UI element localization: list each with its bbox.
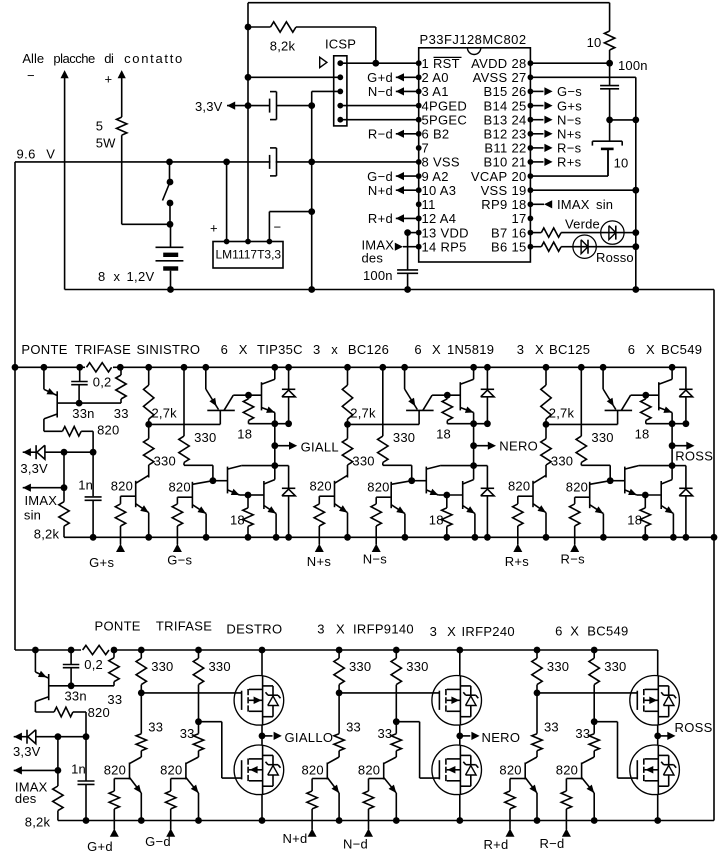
svg-text:6 B2: 6 B2 <box>422 127 450 142</box>
svg-text:1n: 1n <box>78 478 93 493</box>
svg-text:8,2k: 8,2k <box>270 39 296 54</box>
svg-text:10 A3: 10 A3 <box>422 183 457 198</box>
svg-text:5PGEC: 5PGEC <box>422 113 468 128</box>
svg-text:VSS: VSS <box>481 183 508 198</box>
svg-text:+: + <box>105 72 113 87</box>
svg-text:B12: B12 <box>483 127 507 142</box>
svg-text:X: X <box>570 624 579 639</box>
svg-text:TRIFASE: TRIFASE <box>75 342 131 357</box>
svg-text:+: + <box>210 221 218 236</box>
svg-text:26: 26 <box>511 84 526 99</box>
svg-text:AVDD: AVDD <box>471 56 507 71</box>
svg-text:820: 820 <box>88 705 110 720</box>
svg-text:15: 15 <box>511 240 526 255</box>
svg-text:12 A4: 12 A4 <box>422 211 457 226</box>
svg-text:3,3V: 3,3V <box>20 461 48 476</box>
svg-text:6: 6 <box>555 624 563 639</box>
svg-text:X: X <box>447 624 456 639</box>
svg-text:PONTE: PONTE <box>21 342 67 357</box>
svg-text:820: 820 <box>508 478 530 493</box>
svg-text:19: 19 <box>511 183 526 198</box>
svg-text:R+s: R+s <box>505 554 530 569</box>
svg-text:10: 10 <box>614 156 629 171</box>
svg-text:TRIFASE: TRIFASE <box>156 619 212 634</box>
svg-text:8: 8 <box>98 269 105 284</box>
svg-text:6: 6 <box>414 342 422 357</box>
svg-text:2 A0: 2 A0 <box>422 70 449 85</box>
svg-text:18: 18 <box>237 426 252 441</box>
svg-text:330: 330 <box>209 659 231 674</box>
svg-text:X: X <box>646 342 655 357</box>
svg-text:5W: 5W <box>96 136 116 151</box>
svg-text:ICSP: ICSP <box>325 37 356 52</box>
svg-text:R+d: R+d <box>368 211 393 226</box>
svg-text:Verde: Verde <box>565 217 600 232</box>
svg-text:3,3V: 3,3V <box>195 99 223 114</box>
svg-text:33: 33 <box>346 719 361 734</box>
svg-text:B11: B11 <box>484 141 507 156</box>
svg-text:33: 33 <box>180 726 195 741</box>
svg-text:18: 18 <box>230 512 245 527</box>
svg-text:330: 330 <box>591 430 613 445</box>
svg-text:820: 820 <box>104 763 126 778</box>
svg-text:100n: 100n <box>618 58 648 73</box>
svg-text:X: X <box>336 622 345 637</box>
svg-text:3,3V: 3,3V <box>13 744 41 759</box>
svg-text:5: 5 <box>96 119 103 134</box>
svg-text:820: 820 <box>310 478 332 493</box>
svg-text:9.6: 9.6 <box>17 146 36 161</box>
svg-text:IRFP240: IRFP240 <box>462 624 515 639</box>
svg-text:B7: B7 <box>491 225 508 240</box>
svg-text:G+s: G+s <box>557 98 582 113</box>
svg-text:27: 27 <box>511 70 526 85</box>
svg-text:NERO: NERO <box>482 730 521 745</box>
svg-text:33: 33 <box>575 726 590 741</box>
svg-text:GIALLO: GIALLO <box>285 730 334 745</box>
svg-text:R−s: R−s <box>557 141 582 156</box>
svg-text:R−s: R−s <box>561 552 586 567</box>
svg-text:1 RST: 1 RST <box>422 56 460 71</box>
svg-text:B10: B10 <box>483 155 507 170</box>
svg-text:di: di <box>104 51 114 66</box>
svg-text:N+d: N+d <box>368 183 393 198</box>
svg-text:820: 820 <box>556 763 578 778</box>
svg-text:G+s: G+s <box>89 555 114 570</box>
svg-text:33: 33 <box>544 719 559 734</box>
svg-text:1N5819: 1N5819 <box>447 342 494 357</box>
svg-text:P33FJ128MC802: P33FJ128MC802 <box>420 32 527 47</box>
svg-text:17: 17 <box>511 211 526 226</box>
svg-text:820: 820 <box>499 763 521 778</box>
svg-text:IRFP9140: IRFP9140 <box>353 622 414 637</box>
svg-text:x: x <box>331 342 338 357</box>
svg-text:AVSS: AVSS <box>473 70 508 85</box>
svg-text:X: X <box>432 342 441 357</box>
svg-text:820: 820 <box>97 423 119 438</box>
svg-text:x: x <box>114 269 121 284</box>
svg-text:R−d: R−d <box>539 836 564 851</box>
svg-text:des: des <box>362 250 384 265</box>
svg-text:ROSS: ROSS <box>675 720 713 735</box>
svg-text:2,7k: 2,7k <box>152 405 178 420</box>
svg-text:820: 820 <box>358 763 380 778</box>
svg-text:des: des <box>15 791 37 806</box>
svg-text:20: 20 <box>511 169 526 184</box>
svg-text:DESTRO: DESTRO <box>226 622 282 637</box>
svg-text:7: 7 <box>422 141 430 156</box>
svg-text:TIP35C: TIP35C <box>257 342 303 357</box>
svg-text:3: 3 <box>430 624 438 639</box>
svg-text:0,2: 0,2 <box>93 375 112 390</box>
svg-text:G+d: G+d <box>87 839 113 854</box>
svg-text:B6: B6 <box>491 240 508 255</box>
svg-text:18: 18 <box>627 512 642 527</box>
svg-text:3: 3 <box>317 622 325 637</box>
svg-text:contatto: contatto <box>124 51 184 66</box>
svg-text:820: 820 <box>566 479 588 494</box>
svg-text:R−d: R−d <box>368 127 393 142</box>
svg-text:3 A1: 3 A1 <box>422 84 449 99</box>
svg-text:−: − <box>274 220 282 235</box>
svg-text:33: 33 <box>114 406 129 421</box>
svg-text:820: 820 <box>160 763 182 778</box>
svg-text:IMAX: IMAX <box>25 493 58 508</box>
svg-text:NERO: NERO <box>499 439 538 454</box>
svg-text:R+d: R+d <box>483 837 508 852</box>
svg-text:SINISTRO: SINISTRO <box>137 342 201 357</box>
svg-text:100n: 100n <box>363 268 393 283</box>
svg-text:G−s: G−s <box>557 84 582 99</box>
svg-text:BC549: BC549 <box>587 624 628 639</box>
svg-text:24: 24 <box>511 113 526 128</box>
svg-text:8 VSS: 8 VSS <box>422 155 460 170</box>
svg-text:28: 28 <box>511 56 526 71</box>
svg-text:330: 330 <box>154 453 176 468</box>
svg-text:10: 10 <box>587 35 602 50</box>
svg-text:33: 33 <box>378 726 393 741</box>
svg-text:330: 330 <box>151 659 173 674</box>
svg-text:33n: 33n <box>65 689 87 704</box>
svg-text:0,2: 0,2 <box>84 657 103 672</box>
svg-text:21: 21 <box>511 155 526 170</box>
svg-text:330: 330 <box>194 430 216 445</box>
svg-text:8,2k: 8,2k <box>34 527 60 542</box>
svg-text:placche: placche <box>53 51 95 66</box>
svg-text:23: 23 <box>511 127 526 142</box>
svg-text:330: 330 <box>604 659 626 674</box>
svg-text:B13: B13 <box>483 113 507 128</box>
svg-text:14 RP5: 14 RP5 <box>422 240 467 255</box>
svg-text:X: X <box>535 342 544 357</box>
svg-text:330: 330 <box>547 659 569 674</box>
svg-text:ROSS: ROSS <box>675 449 713 464</box>
svg-text:N+s: N+s <box>557 127 582 142</box>
svg-text:Alle: Alle <box>22 51 44 66</box>
svg-text:330: 330 <box>352 453 374 468</box>
svg-text:18: 18 <box>511 197 526 212</box>
svg-text:22: 22 <box>511 141 526 156</box>
svg-text:B15: B15 <box>483 84 507 99</box>
svg-text:G−d: G−d <box>367 169 393 184</box>
svg-text:N−s: N−s <box>363 552 388 567</box>
svg-text:Rosso: Rosso <box>596 250 634 265</box>
svg-text:16: 16 <box>511 225 526 240</box>
svg-text:N−d: N−d <box>343 837 368 852</box>
svg-text:820: 820 <box>367 479 389 494</box>
svg-text:V: V <box>46 146 55 161</box>
svg-text:VCAP: VCAP <box>471 169 508 184</box>
svg-text:N−s: N−s <box>557 113 582 128</box>
svg-text:3: 3 <box>517 342 525 357</box>
svg-text:8,2k: 8,2k <box>25 814 51 829</box>
svg-text:18: 18 <box>436 426 451 441</box>
svg-text:1n: 1n <box>71 761 86 776</box>
svg-text:G+d: G+d <box>367 70 393 85</box>
svg-text:4PGED: 4PGED <box>422 98 468 113</box>
svg-text:−: − <box>27 68 35 83</box>
svg-text:330: 330 <box>406 659 428 674</box>
svg-text:BC125: BC125 <box>549 342 590 357</box>
svg-text:BC126: BC126 <box>348 342 389 357</box>
svg-text:820: 820 <box>302 763 324 778</box>
svg-text:6: 6 <box>628 342 636 357</box>
svg-text:18: 18 <box>429 512 444 527</box>
svg-text:13 VDD: 13 VDD <box>422 225 469 240</box>
svg-text:BC549: BC549 <box>661 342 702 357</box>
svg-text:N+d: N+d <box>282 831 307 846</box>
svg-text:RP9: RP9 <box>481 197 507 212</box>
svg-text:LM1117T3,3: LM1117T3,3 <box>216 248 282 262</box>
svg-text:330: 330 <box>551 453 573 468</box>
svg-text:9 A2: 9 A2 <box>422 169 449 184</box>
svg-text:33n: 33n <box>72 406 94 421</box>
svg-text:2,7k: 2,7k <box>350 405 376 420</box>
svg-text:B14: B14 <box>483 98 507 113</box>
svg-text:11: 11 <box>422 197 436 212</box>
svg-text:3: 3 <box>313 342 321 357</box>
svg-text:2,7k: 2,7k <box>549 405 575 420</box>
svg-text:sin: sin <box>596 197 613 212</box>
svg-text:N+s: N+s <box>307 554 332 569</box>
svg-text:GIALL: GIALL <box>301 439 339 454</box>
svg-text:N−d: N−d <box>368 84 393 99</box>
svg-text:1,2V: 1,2V <box>127 269 155 284</box>
svg-text:330: 330 <box>349 659 371 674</box>
svg-text:6: 6 <box>221 342 229 357</box>
svg-text:25: 25 <box>511 98 526 113</box>
svg-text:IMAX: IMAX <box>557 197 590 212</box>
svg-text:R+s: R+s <box>557 155 582 170</box>
svg-text:X: X <box>239 342 248 357</box>
svg-text:820: 820 <box>111 478 133 493</box>
svg-text:PONTE: PONTE <box>95 619 141 634</box>
svg-text:330: 330 <box>393 430 415 445</box>
svg-text:33: 33 <box>148 719 163 734</box>
svg-text:18: 18 <box>635 426 650 441</box>
svg-text:sin: sin <box>24 507 41 522</box>
svg-text:820: 820 <box>169 479 191 494</box>
svg-text:G−s: G−s <box>167 553 192 568</box>
